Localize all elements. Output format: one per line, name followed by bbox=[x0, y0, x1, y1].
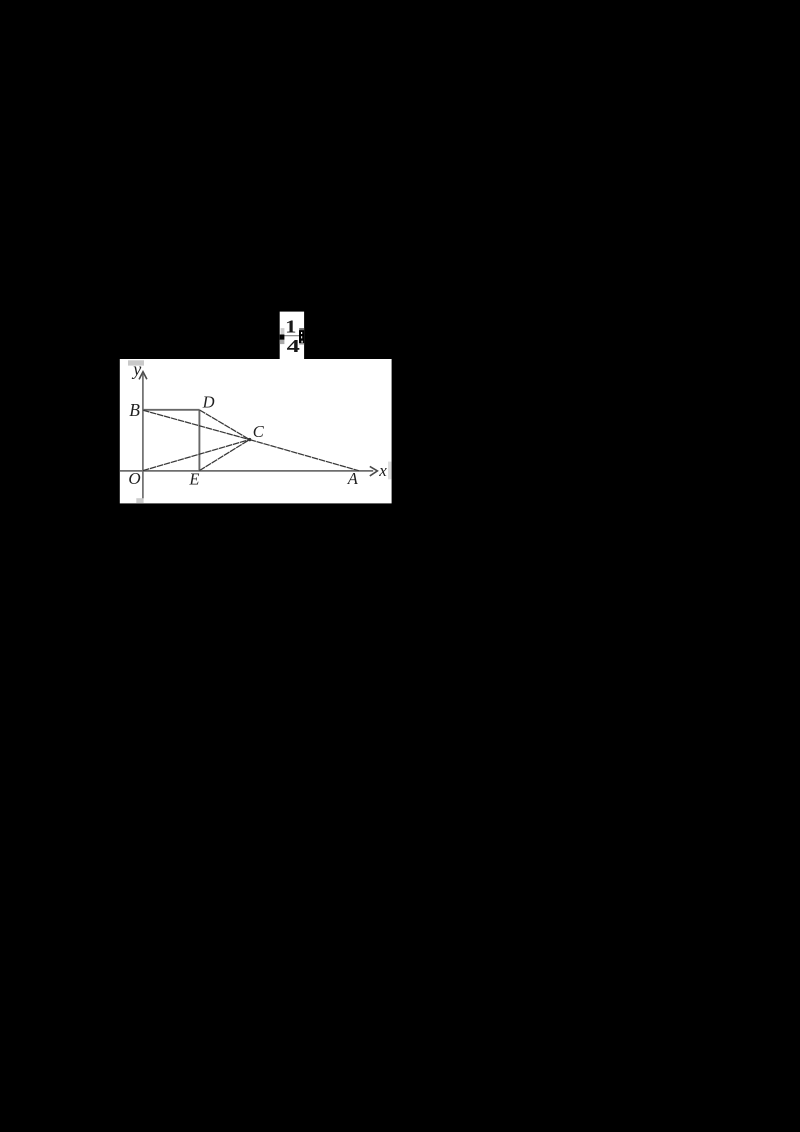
redaction gray notch lower left bbox=[280, 340, 285, 344]
main white figure panel bbox=[120, 359, 392, 503]
redaction dark bar right top bbox=[299, 328, 304, 330]
segment O-C bbox=[143, 440, 250, 471]
svg-text:D: D bbox=[202, 393, 215, 412]
redaction black notch left of fraction bar bbox=[280, 335, 285, 340]
y-axis arrowhead bbox=[139, 372, 147, 380]
segment B-C bbox=[143, 410, 249, 439]
segment D-C bbox=[200, 410, 250, 440]
svg-text:A: A bbox=[347, 469, 359, 488]
white fraction box bbox=[280, 312, 304, 360]
redaction black box right of fraction bbox=[299, 330, 304, 343]
redaction gray notch left of fraction bar bbox=[281, 328, 285, 334]
gray patch above y label bbox=[128, 360, 144, 365]
segment E-C bbox=[199, 440, 249, 471]
svg-text:O: O bbox=[128, 469, 140, 488]
gray strip right of x label bbox=[388, 462, 391, 480]
svg-text:4: 4 bbox=[287, 336, 300, 356]
segment D-E bbox=[198, 410, 200, 471]
x-axis arrowhead bbox=[370, 466, 378, 476]
node C dot bbox=[248, 438, 251, 441]
svg-text:B: B bbox=[129, 400, 140, 420]
gray patch at bottom of y-axis bbox=[136, 498, 143, 503]
white hook inside black box bbox=[301, 341, 303, 343]
gray bar below black box bbox=[299, 343, 304, 344]
svg-text:x: x bbox=[378, 461, 387, 480]
svg-text:y: y bbox=[131, 359, 141, 379]
segment C-A bbox=[250, 440, 359, 471]
fraction bar bbox=[284, 335, 299, 336]
svg-text:C: C bbox=[253, 422, 265, 441]
svg-text:E: E bbox=[188, 470, 199, 489]
white dash 2 inside black box bbox=[301, 336, 302, 338]
segment B-D bbox=[143, 409, 199, 411]
svg-text:1: 1 bbox=[285, 317, 296, 337]
x-axis bbox=[120, 470, 373, 472]
white dash 1 inside black box bbox=[301, 332, 302, 334]
y-axis bbox=[142, 374, 144, 498]
